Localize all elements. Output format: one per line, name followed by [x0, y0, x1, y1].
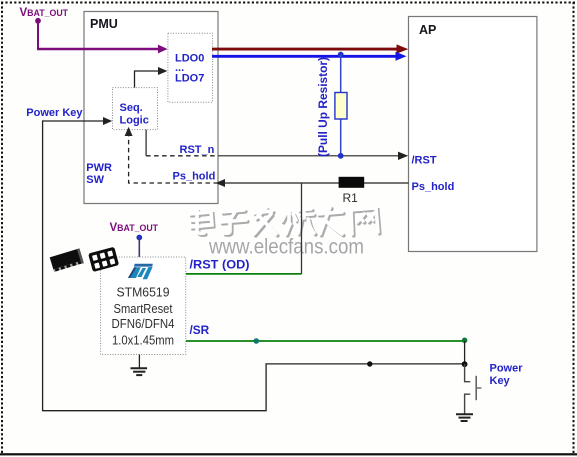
arrowhead Ps_hold into PMU: [216, 179, 226, 187]
VBAT_OUT node dot: [35, 18, 41, 24]
svg-text:Power: Power: [490, 362, 524, 374]
svg-text:SmartReset: SmartReset: [114, 301, 173, 316]
svg-text:Ps_hold: Ps_hold: [412, 181, 455, 193]
svg-text:AP: AP: [419, 23, 436, 37]
wire RST_n dashed inside PMU: [146, 155, 218, 157]
frame dashed right border: [573, 2, 575, 453]
chip package photo right (pads): [88, 247, 119, 272]
PMU block: [84, 12, 218, 204]
svg-text:PWR: PWR: [86, 162, 112, 174]
svg-text:Key: Key: [490, 375, 511, 387]
resistor R1: [339, 177, 365, 188]
node pull-up top dot: [338, 52, 344, 58]
svg-text:(Pull Up Resistor): (Pull Up Resistor): [318, 57, 330, 157]
wire RST_n from Seq Logic: [145, 130, 147, 156]
svg-text:PMU: PMU: [90, 17, 118, 31]
node /SR dot 1: [253, 338, 259, 344]
svg-text:Ps_hold: Ps_hold: [173, 171, 216, 183]
wire link to Ps_hold: [301, 183, 303, 274]
svg-text:Power Key: Power Key: [26, 107, 83, 119]
push button switch Power Key: [465, 364, 471, 382]
AP block: [409, 17, 537, 252]
svg-text:www.elecfans.com: www.elecfans.com: [208, 236, 364, 259]
svg-text:/SR: /SR: [190, 323, 210, 337]
svg-text:Seq.: Seq.: [120, 102, 143, 114]
svg-text:VBAT_OUT: VBAT_OUT: [110, 222, 159, 234]
Seq Logic block: [113, 88, 158, 130]
wire VBAT_OUT to LDO: [37, 48, 160, 50]
wire /RST (OD) green: [186, 273, 302, 275]
svg-text:1.0x1.45mm: 1.0x1.45mm: [112, 332, 174, 347]
arrowhead /RST into AP: [398, 152, 408, 160]
STM6519 block: [101, 257, 186, 355]
node switch junction dot: [462, 361, 468, 367]
wire Ps_hold dashed inside PMU: [129, 134, 218, 183]
svg-text:RST_n: RST_n: [180, 144, 215, 156]
resistor pull-up body: [335, 93, 347, 120]
arrowhead into Seq Logic: [103, 117, 112, 125]
node /SR dot 2: [462, 338, 468, 344]
svg-text:DFN6/DFN4: DFN6/DFN4: [112, 316, 175, 331]
wire /RST PMU to AP: [218, 155, 400, 157]
ground under switch: [456, 413, 473, 415]
wire Power Key to Seq Logic: [43, 120, 105, 122]
bus maroon LDO to AP: [212, 48, 398, 51]
arrowhead into LDO (purple): [158, 45, 168, 54]
frame solid bottom border: [0, 453, 577, 455]
svg-text:SW: SW: [86, 174, 104, 186]
frame dashed left border: [1, 2, 3, 453]
wire Seq Logic to LDO: [135, 71, 161, 88]
chip package photo left: [50, 248, 84, 272]
node junction dot on key line: [367, 361, 372, 366]
arrowhead into LDO (black): [158, 67, 167, 75]
arrowhead blue into AP: [396, 52, 407, 61]
svg-text:Logic: Logic: [120, 115, 149, 127]
VBAT_OUT lower node dot: [136, 235, 142, 241]
svg-text:/RST: /RST: [412, 155, 437, 167]
svg-text:LDO7: LDO7: [175, 73, 204, 85]
wire /SR to switch: [464, 341, 466, 364]
wire /SR green: [186, 340, 465, 342]
watermark chinese characters: [192, 209, 380, 236]
LDO block: [168, 33, 213, 102]
wire VBAT to STM6519: [138, 238, 140, 258]
frame dashed top border: [1, 2, 575, 4]
ST logo: [128, 264, 153, 280]
wire Power Key down-left: [43, 120, 465, 410]
arrowhead maroon into AP: [397, 44, 409, 53]
wire pull-up vertical: [340, 55, 342, 156]
arrowhead Ps_hold into Seq Logic: [125, 127, 133, 136]
node pull-up bottom dot: [338, 153, 344, 159]
ground under STM6519: [138, 355, 140, 369]
svg-text:VBAT_OUT: VBAT_OUT: [20, 7, 69, 19]
svg-text:STM6519: STM6519: [117, 285, 170, 300]
wire Ps_hold AP to PMU: [218, 182, 409, 184]
wire VBAT_OUT vertical: [37, 21, 39, 49]
svg-text:R1: R1: [343, 191, 359, 205]
bus blue LDO to AP: [212, 55, 397, 58]
svg-text:/RST (OD): /RST (OD): [190, 258, 250, 272]
